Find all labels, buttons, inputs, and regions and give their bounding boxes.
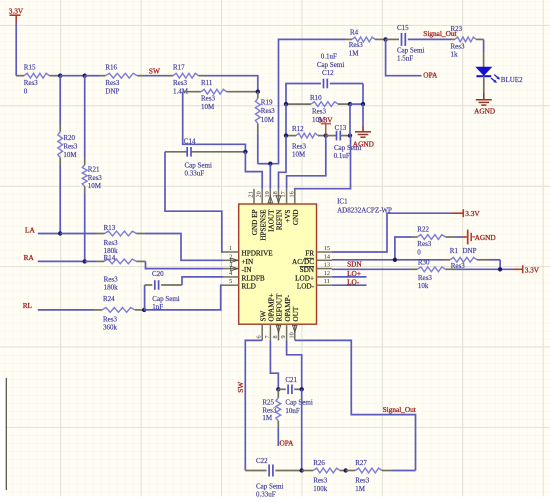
svg-text:100k: 100k	[313, 485, 328, 493]
svg-text:0.33uF: 0.33uF	[256, 490, 276, 498]
svg-text:10M: 10M	[88, 182, 102, 190]
svg-text:R16: R16	[105, 64, 117, 72]
svg-text:5: 5	[229, 278, 232, 285]
svg-text:Cap Semi: Cap Semi	[334, 144, 361, 152]
wire	[85, 75, 99, 77]
pin numbers 21-16	[248, 191, 296, 197]
svg-text:R27: R27	[355, 459, 367, 467]
svg-text:R17: R17	[173, 64, 185, 72]
pin names FR AC/DC SDN LOD+ LOD-	[292, 250, 315, 291]
svg-text:Res3: Res3	[88, 174, 103, 182]
net label LO-	[332, 278, 367, 287]
svg-text:AGND: AGND	[474, 107, 495, 116]
ground AGND (LED)	[474, 93, 495, 116]
svg-text:13: 13	[324, 262, 330, 269]
resistor R17	[166, 64, 206, 96]
svg-text:1M: 1M	[349, 49, 360, 57]
IC U1 AD8232 body	[239, 204, 317, 324]
wire	[183, 92, 246, 152]
svg-text:OPA: OPA	[280, 438, 295, 447]
svg-text:R22: R22	[417, 226, 429, 234]
wire	[460, 268, 514, 270]
svg-text:10nF: 10nF	[285, 407, 300, 415]
svg-text:6: 6	[256, 335, 263, 338]
svg-text:180k: 180k	[104, 284, 119, 292]
svg-text:OPAMP-: OPAMP-	[284, 294, 292, 321]
wire	[483, 39, 485, 67]
resistor R13	[96, 224, 145, 255]
svg-text:SW: SW	[236, 382, 245, 393]
svg-text:360k: 360k	[103, 324, 118, 332]
svg-text:R26: R26	[313, 459, 325, 467]
svg-text:LA: LA	[25, 226, 35, 235]
svg-text:SDN: SDN	[347, 260, 362, 269]
svg-text:R23: R23	[451, 25, 463, 33]
IC left pins 1-5 stubs	[223, 252, 238, 285]
svg-text:AGND: AGND	[475, 233, 496, 242]
net label OPA (bottom)	[280, 438, 295, 447]
svg-text:0.1uF: 0.1uF	[321, 53, 337, 61]
resistor R19	[255, 92, 275, 134]
svg-text:1nF: 1nF	[152, 303, 163, 311]
svg-text:1.5nF: 1.5nF	[397, 55, 413, 63]
svg-text:BLUE2: BLUE2	[501, 76, 523, 84]
svg-text:HPDRIVE: HPDRIVE	[242, 250, 274, 258]
svg-text:C13: C13	[335, 124, 347, 132]
svg-text:OPAMP+: OPAMP+	[268, 293, 276, 321]
svg-text:+IN: +IN	[242, 258, 254, 266]
svg-text:LOD-: LOD-	[297, 283, 315, 291]
node junction	[142, 308, 146, 312]
svg-text:Res3: Res3	[312, 108, 327, 116]
svg-text:Res3: Res3	[451, 42, 466, 50]
svg-text:DNP: DNP	[105, 88, 119, 96]
svg-text:16: 16	[288, 191, 295, 197]
resistor R23	[451, 25, 484, 59]
svg-text:3.3V: 3.3V	[318, 115, 333, 124]
resistor R22	[395, 226, 463, 260]
svg-text:19: 19	[264, 191, 271, 197]
svg-text:C22: C22	[256, 457, 268, 465]
node junction	[83, 74, 87, 78]
svg-text:10k: 10k	[418, 282, 429, 290]
svg-text:Res3: Res3	[262, 406, 277, 414]
power port 3.3V (FR)	[452, 209, 480, 218]
svg-text:Res3: Res3	[349, 41, 364, 49]
svg-text:R24: R24	[103, 295, 115, 303]
svg-text:15: 15	[324, 245, 330, 252]
svg-text:Res3: Res3	[292, 142, 307, 150]
resistor R27	[346, 459, 416, 493]
svg-text:10M: 10M	[201, 103, 215, 111]
node junction	[58, 231, 62, 235]
svg-text:0.1uF: 0.1uF	[334, 152, 350, 160]
svg-text:Cap Semi: Cap Semi	[397, 46, 424, 54]
resistor R16	[99, 64, 143, 96]
svg-text:R19: R19	[261, 99, 273, 107]
svg-text:14: 14	[324, 253, 330, 260]
sheet border	[0, 377, 6, 496]
svg-text:REFOUT: REFOUT	[276, 293, 284, 322]
svg-text:Res3: Res3	[418, 274, 433, 282]
svg-text:Res3: Res3	[63, 143, 78, 151]
resistor R10	[286, 94, 350, 124]
wire	[287, 340, 302, 389]
resistor R14	[96, 254, 146, 292]
svg-text:Cap Semi: Cap Semi	[285, 399, 312, 407]
svg-text:17: 17	[280, 191, 287, 197]
svg-text:Cap Semi: Cap Semi	[152, 295, 179, 303]
svg-text:OUT: OUT	[292, 306, 300, 321]
svg-text:20: 20	[256, 191, 263, 197]
node junction	[276, 387, 280, 391]
resistor R25	[262, 389, 280, 446]
resistor R1	[443, 247, 500, 270]
net label SDN	[332, 260, 410, 270]
wire	[332, 259, 443, 261]
wire	[301, 389, 303, 470]
resistor R20	[58, 76, 78, 165]
svg-text:11: 11	[324, 278, 330, 285]
svg-text:Res3: Res3	[104, 275, 119, 283]
pin names HPDRIVE +IN -IN RLDFB RLD	[242, 250, 274, 291]
node junction	[324, 133, 328, 137]
power port AGND (R22)	[462, 230, 495, 245]
svg-text:Res3: Res3	[103, 315, 118, 323]
node junction	[300, 468, 304, 472]
svg-text:GND: GND	[292, 210, 300, 226]
svg-text:R11: R11	[201, 79, 213, 87]
svg-text:8: 8	[272, 335, 279, 338]
wire	[287, 136, 326, 189]
svg-text:SW: SW	[149, 67, 160, 76]
svg-text:C12: C12	[322, 69, 334, 77]
LED BLUE2	[476, 67, 523, 93]
power port 3.3V (SDN)	[514, 265, 540, 274]
node junction	[348, 133, 352, 137]
node junction	[284, 102, 288, 106]
resistor R30	[410, 258, 460, 290]
wire	[279, 136, 287, 189]
svg-text:R4: R4	[350, 29, 359, 37]
wire	[16, 23, 17, 76]
svg-text:SDN: SDN	[300, 266, 315, 274]
svg-text:HPSENSE: HPSENSE	[259, 209, 267, 241]
node junction	[344, 468, 348, 472]
power port 3.3V (middle)	[318, 115, 333, 135]
svg-text:RLDFB: RLDFB	[242, 274, 265, 282]
node junction	[393, 258, 397, 262]
wire	[182, 277, 223, 285]
svg-text:FR: FR	[305, 250, 314, 258]
net label Signal_Out (bottom)	[383, 405, 416, 414]
wire	[60, 75, 84, 77]
svg-text:LOD+: LOD+	[295, 274, 314, 282]
svg-text:DNP: DNP	[463, 247, 477, 255]
node junction	[256, 90, 260, 94]
net label SW (bottom)	[236, 382, 245, 393]
svg-text:C14: C14	[184, 137, 196, 145]
net label RA	[24, 253, 85, 262]
wire	[295, 136, 351, 190]
wire	[285, 104, 287, 136]
wire	[60, 233, 96, 235]
ground AGND (middle)	[353, 104, 374, 148]
wire	[350, 103, 363, 105]
wire	[85, 260, 96, 262]
svg-text:9: 9	[280, 335, 287, 338]
svg-text:AC/DC: AC/DC	[292, 258, 314, 266]
wire	[146, 261, 224, 268]
capacitor C20	[145, 270, 182, 311]
wire	[332, 213, 452, 252]
svg-text:1k: 1k	[451, 51, 459, 59]
svg-text:R21: R21	[88, 165, 100, 173]
svg-text:1: 1	[229, 245, 232, 252]
wire	[270, 340, 278, 389]
svg-text:GND EP: GND EP	[251, 210, 259, 236]
wire	[349, 104, 351, 136]
svg-text:3.3V: 3.3V	[525, 266, 540, 275]
net label LO+	[332, 269, 367, 278]
wire	[206, 76, 258, 92]
svg-text:1M: 1M	[355, 485, 366, 493]
wire	[269, 164, 271, 189]
svg-text:7: 7	[264, 335, 271, 338]
svg-text:R20: R20	[63, 134, 75, 142]
wire	[499, 260, 501, 270]
svg-text:Cap Semi: Cap Semi	[185, 161, 212, 169]
svg-text:3.3V: 3.3V	[465, 209, 480, 218]
svg-text:Res3: Res3	[201, 95, 216, 103]
svg-text:Res3: Res3	[105, 79, 120, 87]
svg-text:10M: 10M	[261, 116, 275, 124]
svg-text:OPA: OPA	[423, 71, 438, 80]
svg-text:R10: R10	[310, 94, 322, 102]
net label SW	[143, 67, 166, 76]
svg-text:18: 18	[272, 191, 279, 197]
IC bottom pins 6-10 stubs	[262, 324, 297, 340]
svg-text:LO-: LO-	[347, 278, 360, 287]
svg-text:RL: RL	[23, 301, 33, 310]
node junction	[348, 102, 352, 106]
wire	[258, 133, 271, 164]
resistor R21	[82, 76, 102, 194]
svg-text:R15: R15	[24, 64, 36, 72]
svg-text:3: 3	[229, 262, 232, 269]
pin numbers 1-5	[229, 245, 232, 285]
svg-text:Res3: Res3	[313, 477, 328, 485]
svg-text:C20: C20	[152, 270, 164, 278]
svg-text:0: 0	[24, 88, 28, 96]
capacitor C15	[386, 24, 425, 63]
node junction	[243, 150, 247, 154]
svg-text:+VS: +VS	[284, 210, 292, 223]
capacitor C12	[286, 53, 363, 105]
pin names SW OPAMP+ REFOUT OPAMP- OUT	[259, 293, 300, 322]
svg-text:REFIN: REFIN	[276, 209, 284, 231]
capacitor C22	[245, 457, 301, 498]
svg-text:-IN: -IN	[242, 266, 253, 274]
resistor R15	[16, 64, 60, 96]
svg-text:4: 4	[229, 270, 232, 277]
net label Signal_Out (top)	[423, 29, 456, 39]
resistor R26	[302, 459, 346, 493]
wire	[165, 152, 223, 252]
resistor R12	[286, 125, 326, 158]
node junction	[300, 387, 304, 391]
svg-text:0.33uF: 0.33uF	[185, 170, 205, 178]
svg-text:R13: R13	[104, 224, 116, 232]
IC right pins 15-11 stubs	[317, 252, 332, 285]
wire	[145, 234, 223, 261]
wire	[245, 152, 262, 189]
svg-text:Cap Semi: Cap Semi	[256, 482, 283, 490]
svg-text:AD8232ACPZ-WP: AD8232ACPZ-WP	[337, 206, 392, 214]
svg-text:Res3: Res3	[417, 240, 432, 248]
svg-text:RLD: RLD	[242, 283, 256, 291]
pin numbers 15-11	[324, 245, 330, 285]
svg-text:Res3: Res3	[24, 79, 39, 87]
resistor R11	[183, 79, 258, 111]
IC designator IC1 AD8232ACPZ-WP	[337, 197, 392, 214]
net label RL	[23, 301, 94, 310]
resistor R4	[345, 29, 386, 58]
svg-text:Res3: Res3	[355, 477, 370, 485]
svg-text:Res3: Res3	[261, 107, 276, 115]
svg-text:RA: RA	[24, 253, 35, 262]
svg-text:C15: C15	[397, 24, 409, 32]
node junction	[498, 267, 502, 271]
svg-text:2: 2	[229, 253, 232, 260]
wire	[144, 285, 223, 310]
resistor R24	[94, 295, 144, 332]
svg-text:Res3: Res3	[104, 239, 119, 247]
svg-text:0: 0	[417, 248, 421, 256]
svg-text:R25: R25	[262, 399, 274, 407]
svg-text:R12: R12	[292, 125, 304, 133]
node junction	[58, 74, 62, 78]
wire	[84, 194, 86, 261]
pin numbers 6-10	[256, 332, 296, 338]
wire	[245, 340, 262, 470]
node junction	[383, 37, 387, 41]
wire	[295, 340, 416, 470]
capacitor C14	[165, 137, 245, 177]
node junction	[268, 162, 272, 166]
svg-text:Cap Semi: Cap Semi	[317, 61, 344, 69]
pin names GND-EP HPSENSE IAOUT REFIN +VS GND	[251, 209, 300, 241]
capacitor C21	[278, 376, 313, 415]
svg-text:1M: 1M	[262, 414, 273, 422]
svg-text:IAOUT: IAOUT	[268, 209, 276, 232]
svg-text:Res3: Res3	[173, 79, 188, 87]
svg-text:C21: C21	[285, 376, 297, 384]
node junction	[284, 133, 288, 137]
svg-text:IC1: IC1	[337, 197, 348, 205]
wire	[270, 39, 345, 163]
node junction	[83, 259, 87, 263]
power port 3.3V (top left)	[9, 7, 24, 23]
svg-text:R30: R30	[418, 258, 430, 266]
IC top pins 21-16 stubs	[254, 189, 295, 204]
svg-text:12: 12	[324, 270, 330, 277]
svg-text:Signal_Out: Signal_Out	[383, 405, 416, 414]
svg-text:SW: SW	[259, 311, 267, 322]
svg-text:21: 21	[248, 191, 255, 197]
svg-text:10: 10	[288, 332, 295, 338]
svg-text:10M: 10M	[63, 151, 77, 159]
svg-text:R1: R1	[450, 247, 459, 255]
wire	[59, 165, 61, 234]
svg-text:R14: R14	[104, 254, 116, 262]
net label LA	[25, 226, 60, 235]
svg-text:3.3V: 3.3V	[9, 7, 24, 16]
svg-text:10M: 10M	[292, 151, 306, 159]
net label OPA (top)	[386, 39, 438, 79]
capacitor C13	[326, 124, 362, 160]
node junction	[361, 102, 365, 106]
